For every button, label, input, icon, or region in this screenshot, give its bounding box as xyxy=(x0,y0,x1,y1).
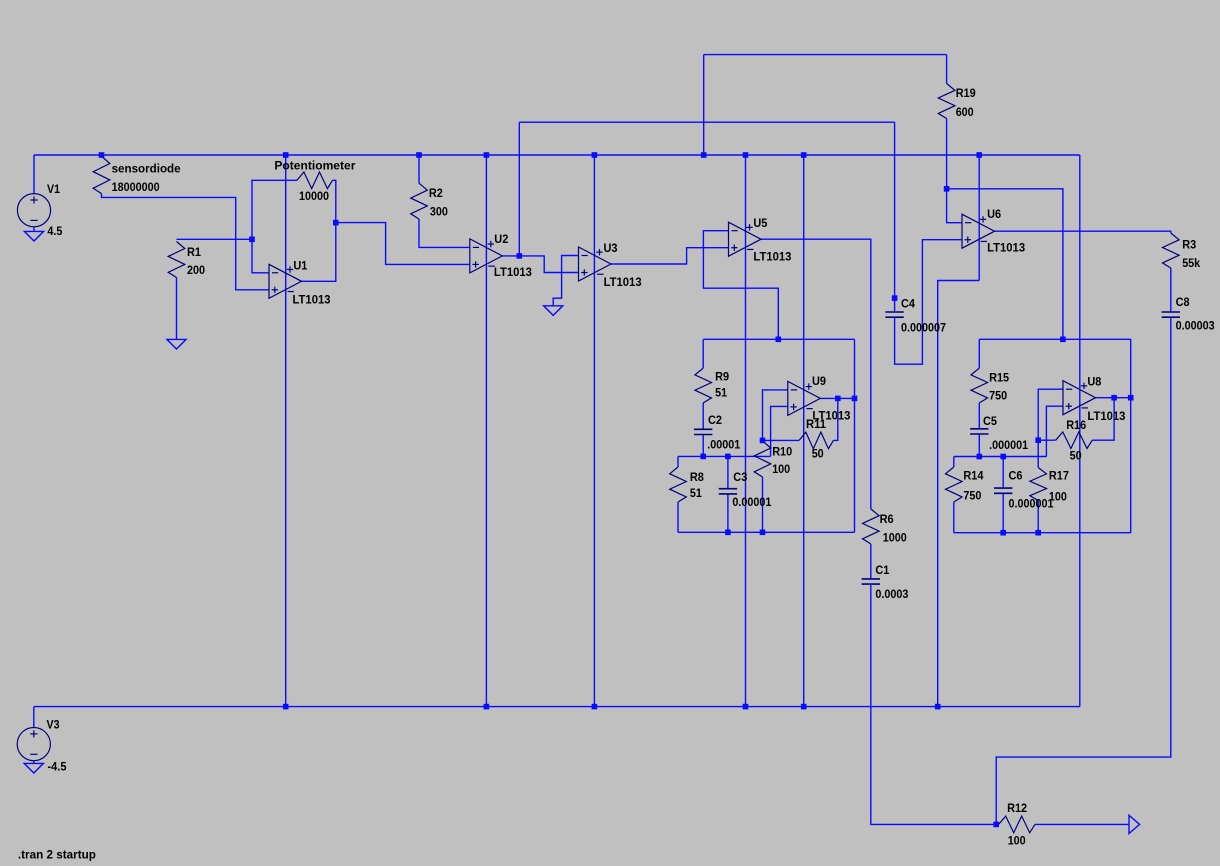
svg-text:R9: R9 xyxy=(715,370,729,384)
wire R2 bottom to U2 minus xyxy=(419,219,470,247)
svg-text:C3: C3 xyxy=(733,470,747,484)
svg-text:C2: C2 xyxy=(708,413,722,427)
svg-text:U5: U5 xyxy=(753,216,767,230)
svg-text:100: 100 xyxy=(1049,489,1067,503)
junction U8 out right edge xyxy=(1128,395,1134,401)
wire U8 power rail-to-rail xyxy=(1079,155,1081,707)
junction U1 power rail xyxy=(283,152,289,158)
wire U1 output xyxy=(302,223,336,282)
junction R10 bottom xyxy=(760,530,766,536)
svg-text:R16: R16 xyxy=(1066,418,1086,432)
resistor R15 xyxy=(971,368,988,403)
junction block B top xyxy=(1060,337,1066,343)
wire R10 bottom lead xyxy=(762,477,764,532)
junction R17 bottom xyxy=(1035,530,1041,536)
svg-text:100: 100 xyxy=(772,462,790,476)
wire U6 V- jog to bottom rail xyxy=(938,281,980,707)
resistor R9 xyxy=(695,368,712,403)
svg-text:R8: R8 xyxy=(690,470,704,484)
junction sensordiode top xyxy=(99,152,105,158)
svg-text:.000001: .000001 xyxy=(989,438,1028,452)
junction U2 out node xyxy=(517,253,523,259)
svg-text:.tran 2 startup: .tran 2 startup xyxy=(18,848,96,862)
wire U2 out node to U3 plus xyxy=(519,256,578,273)
resistor R12 xyxy=(999,816,1035,833)
svg-text:Potentiometer: Potentiometer xyxy=(274,159,355,173)
wire -4.5V bottom rail xyxy=(34,706,1080,708)
wire node to U1 minus xyxy=(252,239,269,272)
svg-text:C1: C1 xyxy=(875,563,889,577)
voltage source V3 xyxy=(17,728,50,761)
svg-text:R3: R3 xyxy=(1182,237,1196,251)
svg-text:55k: 55k xyxy=(1182,256,1200,270)
junction U1 out node xyxy=(333,220,339,226)
svg-text:U9: U9 xyxy=(812,374,826,388)
svg-text:R19: R19 xyxy=(956,86,976,100)
capacitor C1 xyxy=(862,579,880,584)
wire R19 node to U6 minus xyxy=(947,189,962,223)
wire block B bottom edge xyxy=(954,532,1131,534)
wire C2 to node A xyxy=(702,435,704,457)
op-amp U3 xyxy=(579,247,612,281)
svg-text:100: 100 xyxy=(1008,833,1026,847)
wire C6 top lead xyxy=(1002,457,1004,489)
wire U6 V+ from rail xyxy=(978,155,980,281)
svg-text:10000: 10000 xyxy=(299,189,329,203)
wire C4 bottom to U6 plus xyxy=(895,240,962,365)
op-amp U1 xyxy=(269,264,302,298)
op-amp U8 xyxy=(1063,381,1096,415)
svg-text:LT1013: LT1013 xyxy=(753,250,791,264)
op-amp U9 xyxy=(788,381,821,415)
capacitor C6 xyxy=(994,488,1012,493)
svg-text:R10: R10 xyxy=(772,445,792,459)
svg-text:V3: V3 xyxy=(47,717,60,731)
junction R19 node xyxy=(944,186,950,192)
ground below R1 xyxy=(167,339,186,349)
resistor R19 xyxy=(938,84,955,119)
svg-text:R2: R2 xyxy=(429,186,443,200)
wire C5 to node B xyxy=(978,434,980,457)
svg-text:0.0003: 0.0003 xyxy=(875,587,908,601)
wire feedback rail drop to +4.5 rail xyxy=(703,55,705,155)
capacitor C8 xyxy=(1162,312,1180,317)
junction node A C2 xyxy=(700,454,706,460)
junction U5 power bottom xyxy=(743,704,749,710)
resistor R6 xyxy=(863,509,880,544)
junction R1 node xyxy=(249,237,255,243)
svg-text:.00001: .00001 xyxy=(707,437,740,451)
svg-text:LT1013: LT1013 xyxy=(494,265,532,279)
resistor Potentiometer xyxy=(297,172,333,189)
wire block B top edge xyxy=(979,338,1130,340)
resistor R1 xyxy=(168,242,185,278)
wire +4.5V top rail xyxy=(34,154,1080,156)
junction C4 top xyxy=(892,295,898,301)
wire U9 output xyxy=(820,397,854,399)
resistor R2 xyxy=(411,183,428,219)
svg-text:0.00003: 0.00003 xyxy=(1176,318,1215,332)
resistor R14 xyxy=(946,467,963,502)
wire R11 left lead xyxy=(763,439,800,441)
wire U2 output up xyxy=(518,122,520,256)
resistor R11 xyxy=(799,432,833,449)
junction C6 bottom xyxy=(1000,530,1006,536)
junction U9 out right edge xyxy=(852,396,858,402)
wire block B right edge xyxy=(1130,339,1132,532)
capacitor C4 xyxy=(885,312,903,317)
junction U2 power bottom xyxy=(484,704,490,710)
wire U5 output to R6 xyxy=(761,239,871,509)
junction R11 output xyxy=(835,396,841,402)
svg-text:LT1013: LT1013 xyxy=(293,293,331,307)
svg-text:LT1013: LT1013 xyxy=(604,275,642,289)
svg-text:R17: R17 xyxy=(1049,469,1069,483)
svg-text:R15: R15 xyxy=(989,370,1009,384)
svg-text:C4: C4 xyxy=(901,296,915,310)
wire U3 output to U5 plus xyxy=(611,248,729,264)
wire R12 left lead xyxy=(996,823,998,825)
wire U8 minus lead xyxy=(1038,389,1063,440)
wire R8 leads xyxy=(677,456,679,467)
wire node A mid line xyxy=(678,455,771,457)
capacitor C5 xyxy=(970,429,988,434)
resistor R3 xyxy=(1163,233,1180,268)
wire U8 plus lead xyxy=(1046,406,1063,456)
wire C3 bottom lead xyxy=(727,494,729,532)
svg-text:sensordiode: sensordiode xyxy=(112,162,181,176)
svg-text:50: 50 xyxy=(1070,449,1082,463)
junction U6 power rail xyxy=(976,152,982,158)
junction feedback drop rail xyxy=(701,152,707,158)
wire R1 top to node xyxy=(177,238,253,240)
wire R6 to C1 xyxy=(870,544,872,579)
resistor R10 xyxy=(754,441,771,477)
svg-text:300: 300 xyxy=(430,205,448,219)
wire U9 plus lead xyxy=(771,406,788,456)
wire potentiometer right lead xyxy=(333,180,336,222)
junction U5 power rail xyxy=(743,152,749,158)
wire C3 top lead xyxy=(727,456,729,488)
svg-text:0.000007: 0.000007 xyxy=(901,321,946,335)
svg-text:0.00001: 0.00001 xyxy=(732,495,771,509)
wire R1 bottom lead xyxy=(176,278,178,340)
wire R11 right lead up xyxy=(833,398,837,440)
svg-text:U3: U3 xyxy=(604,241,618,255)
junction U3 power bottom xyxy=(592,704,598,710)
wire V1 top stub xyxy=(33,155,35,194)
svg-text:51: 51 xyxy=(690,486,702,500)
op-amp U6 xyxy=(962,214,995,248)
wire V3 top stub xyxy=(33,707,35,728)
svg-text:LT1013: LT1013 xyxy=(1087,409,1125,423)
wire block A top edge xyxy=(703,338,854,340)
wire R16 right lead up xyxy=(1092,398,1114,441)
wire U2-output rail xyxy=(519,121,894,123)
svg-text:50: 50 xyxy=(812,447,824,461)
resistor sensordiode xyxy=(93,156,110,193)
wire U9 power rail-to-rail xyxy=(803,155,805,707)
junction R16 output xyxy=(1111,395,1117,401)
wire R19 node to block B xyxy=(947,189,1063,339)
junction U9 minus node xyxy=(760,438,766,444)
junction U8 minus node xyxy=(1035,437,1041,443)
wire block A bottom edge xyxy=(678,531,855,533)
svg-text:R11: R11 xyxy=(806,417,826,431)
wire U1 power rail-to-rail xyxy=(285,155,287,707)
svg-text:V1: V1 xyxy=(47,182,60,196)
svg-text:R12: R12 xyxy=(1007,801,1027,815)
wire R17 top lead xyxy=(1037,440,1039,467)
wire R9 top lead xyxy=(702,339,704,368)
svg-text:C8: C8 xyxy=(1176,295,1190,309)
output port arrow xyxy=(1129,815,1140,833)
svg-text:R1: R1 xyxy=(187,245,201,259)
junction U9 power rail xyxy=(801,152,807,158)
wire R15 top lead xyxy=(978,339,980,368)
resistor R17 xyxy=(1030,468,1047,501)
wire U9 minus lead xyxy=(763,390,788,441)
svg-text:C5: C5 xyxy=(983,414,997,428)
op-amp U2 xyxy=(470,239,503,273)
junction block A top xyxy=(776,337,782,343)
wire R17 bottom lead xyxy=(1037,501,1039,533)
svg-text:750: 750 xyxy=(963,489,981,503)
junction C3 bottom xyxy=(725,530,731,536)
wire R12 right lead xyxy=(1035,823,1129,825)
capacitor C2 xyxy=(694,429,712,434)
wire U6 output to R3 xyxy=(995,231,1171,233)
capacitor C3 xyxy=(719,489,737,494)
resistor R8 xyxy=(670,467,687,502)
svg-text:0.000001: 0.000001 xyxy=(1009,497,1054,511)
wire C1 bottom to R12 node xyxy=(871,584,996,824)
wire block A right edge xyxy=(854,339,856,532)
wire C6 bottom lead xyxy=(1002,493,1004,532)
wire U8 output xyxy=(1096,397,1131,399)
junction U3 power rail xyxy=(592,152,598,158)
svg-text:-4.5: -4.5 xyxy=(48,759,67,773)
voltage source V1 xyxy=(17,194,50,227)
wire R9 to C2 xyxy=(702,403,704,429)
wire R3 to C8 xyxy=(1170,268,1172,312)
wire U1 out node to U2 plus xyxy=(336,223,470,265)
svg-text:U2: U2 xyxy=(494,232,508,246)
svg-text:R6: R6 xyxy=(880,512,894,526)
wire R19 bottom lead to node xyxy=(946,119,948,189)
junction U2 power rail xyxy=(484,152,490,158)
svg-text:LT1013: LT1013 xyxy=(987,240,1025,254)
wire U5 minus to filter block A xyxy=(703,231,778,340)
junction R2 rail xyxy=(416,152,422,158)
svg-text:C6: C6 xyxy=(1009,469,1023,483)
svg-text:4.5: 4.5 xyxy=(47,224,62,238)
wire V1 bottom stub xyxy=(33,227,35,232)
svg-text:18000000: 18000000 xyxy=(112,180,160,194)
junction U6 power bottom xyxy=(935,704,941,710)
wire V3 bottom stub xyxy=(33,761,35,764)
junction U9 power bottom xyxy=(801,704,807,710)
wire R14 bottom lead xyxy=(953,502,955,533)
ground below V3 xyxy=(24,763,43,773)
ground at U3 minus xyxy=(544,306,563,316)
svg-text:51: 51 xyxy=(715,385,727,399)
wire U3 power rail-to-rail xyxy=(593,155,595,707)
wire R14 top lead xyxy=(953,457,955,468)
wire R2 top lead xyxy=(418,155,420,183)
wire U5 power rail-to-rail xyxy=(745,155,747,707)
svg-text:200: 200 xyxy=(187,263,205,277)
junction node A C3 xyxy=(725,454,731,460)
wire potentiometer left lead xyxy=(252,180,297,239)
wire R8 bottom lead xyxy=(677,502,679,532)
junction node B C6 xyxy=(1000,454,1006,460)
op-amp U5 xyxy=(729,222,762,256)
svg-text:R14: R14 xyxy=(963,469,983,483)
junction U1 power bottom xyxy=(283,704,289,710)
svg-text:750: 750 xyxy=(989,388,1007,402)
wire U2 power rail-to-rail xyxy=(485,155,487,707)
svg-text:600: 600 xyxy=(956,105,974,119)
wire R19 top lead xyxy=(946,55,948,84)
wire C8 bottom return xyxy=(996,317,1171,824)
svg-text:U6: U6 xyxy=(987,207,1001,221)
wire U2 output to node xyxy=(502,255,519,257)
ground below V1 xyxy=(24,231,43,241)
resistor R16 xyxy=(1056,432,1093,449)
wire U3 minus to ground xyxy=(553,256,578,306)
svg-text:U1: U1 xyxy=(293,258,307,272)
wire feedback top rail xyxy=(704,54,947,56)
junction node B C5 xyxy=(977,454,983,460)
wire node B mid line xyxy=(954,456,1047,458)
wire sensordiode bottom to U1 plus xyxy=(102,194,270,290)
wire R15 to C5 xyxy=(978,403,980,429)
svg-text:1000: 1000 xyxy=(883,531,907,545)
wire C4 top lead xyxy=(894,122,896,312)
svg-text:U8: U8 xyxy=(1087,374,1101,388)
wire R16 left lead xyxy=(1038,439,1056,441)
junction R12 node xyxy=(993,822,999,828)
